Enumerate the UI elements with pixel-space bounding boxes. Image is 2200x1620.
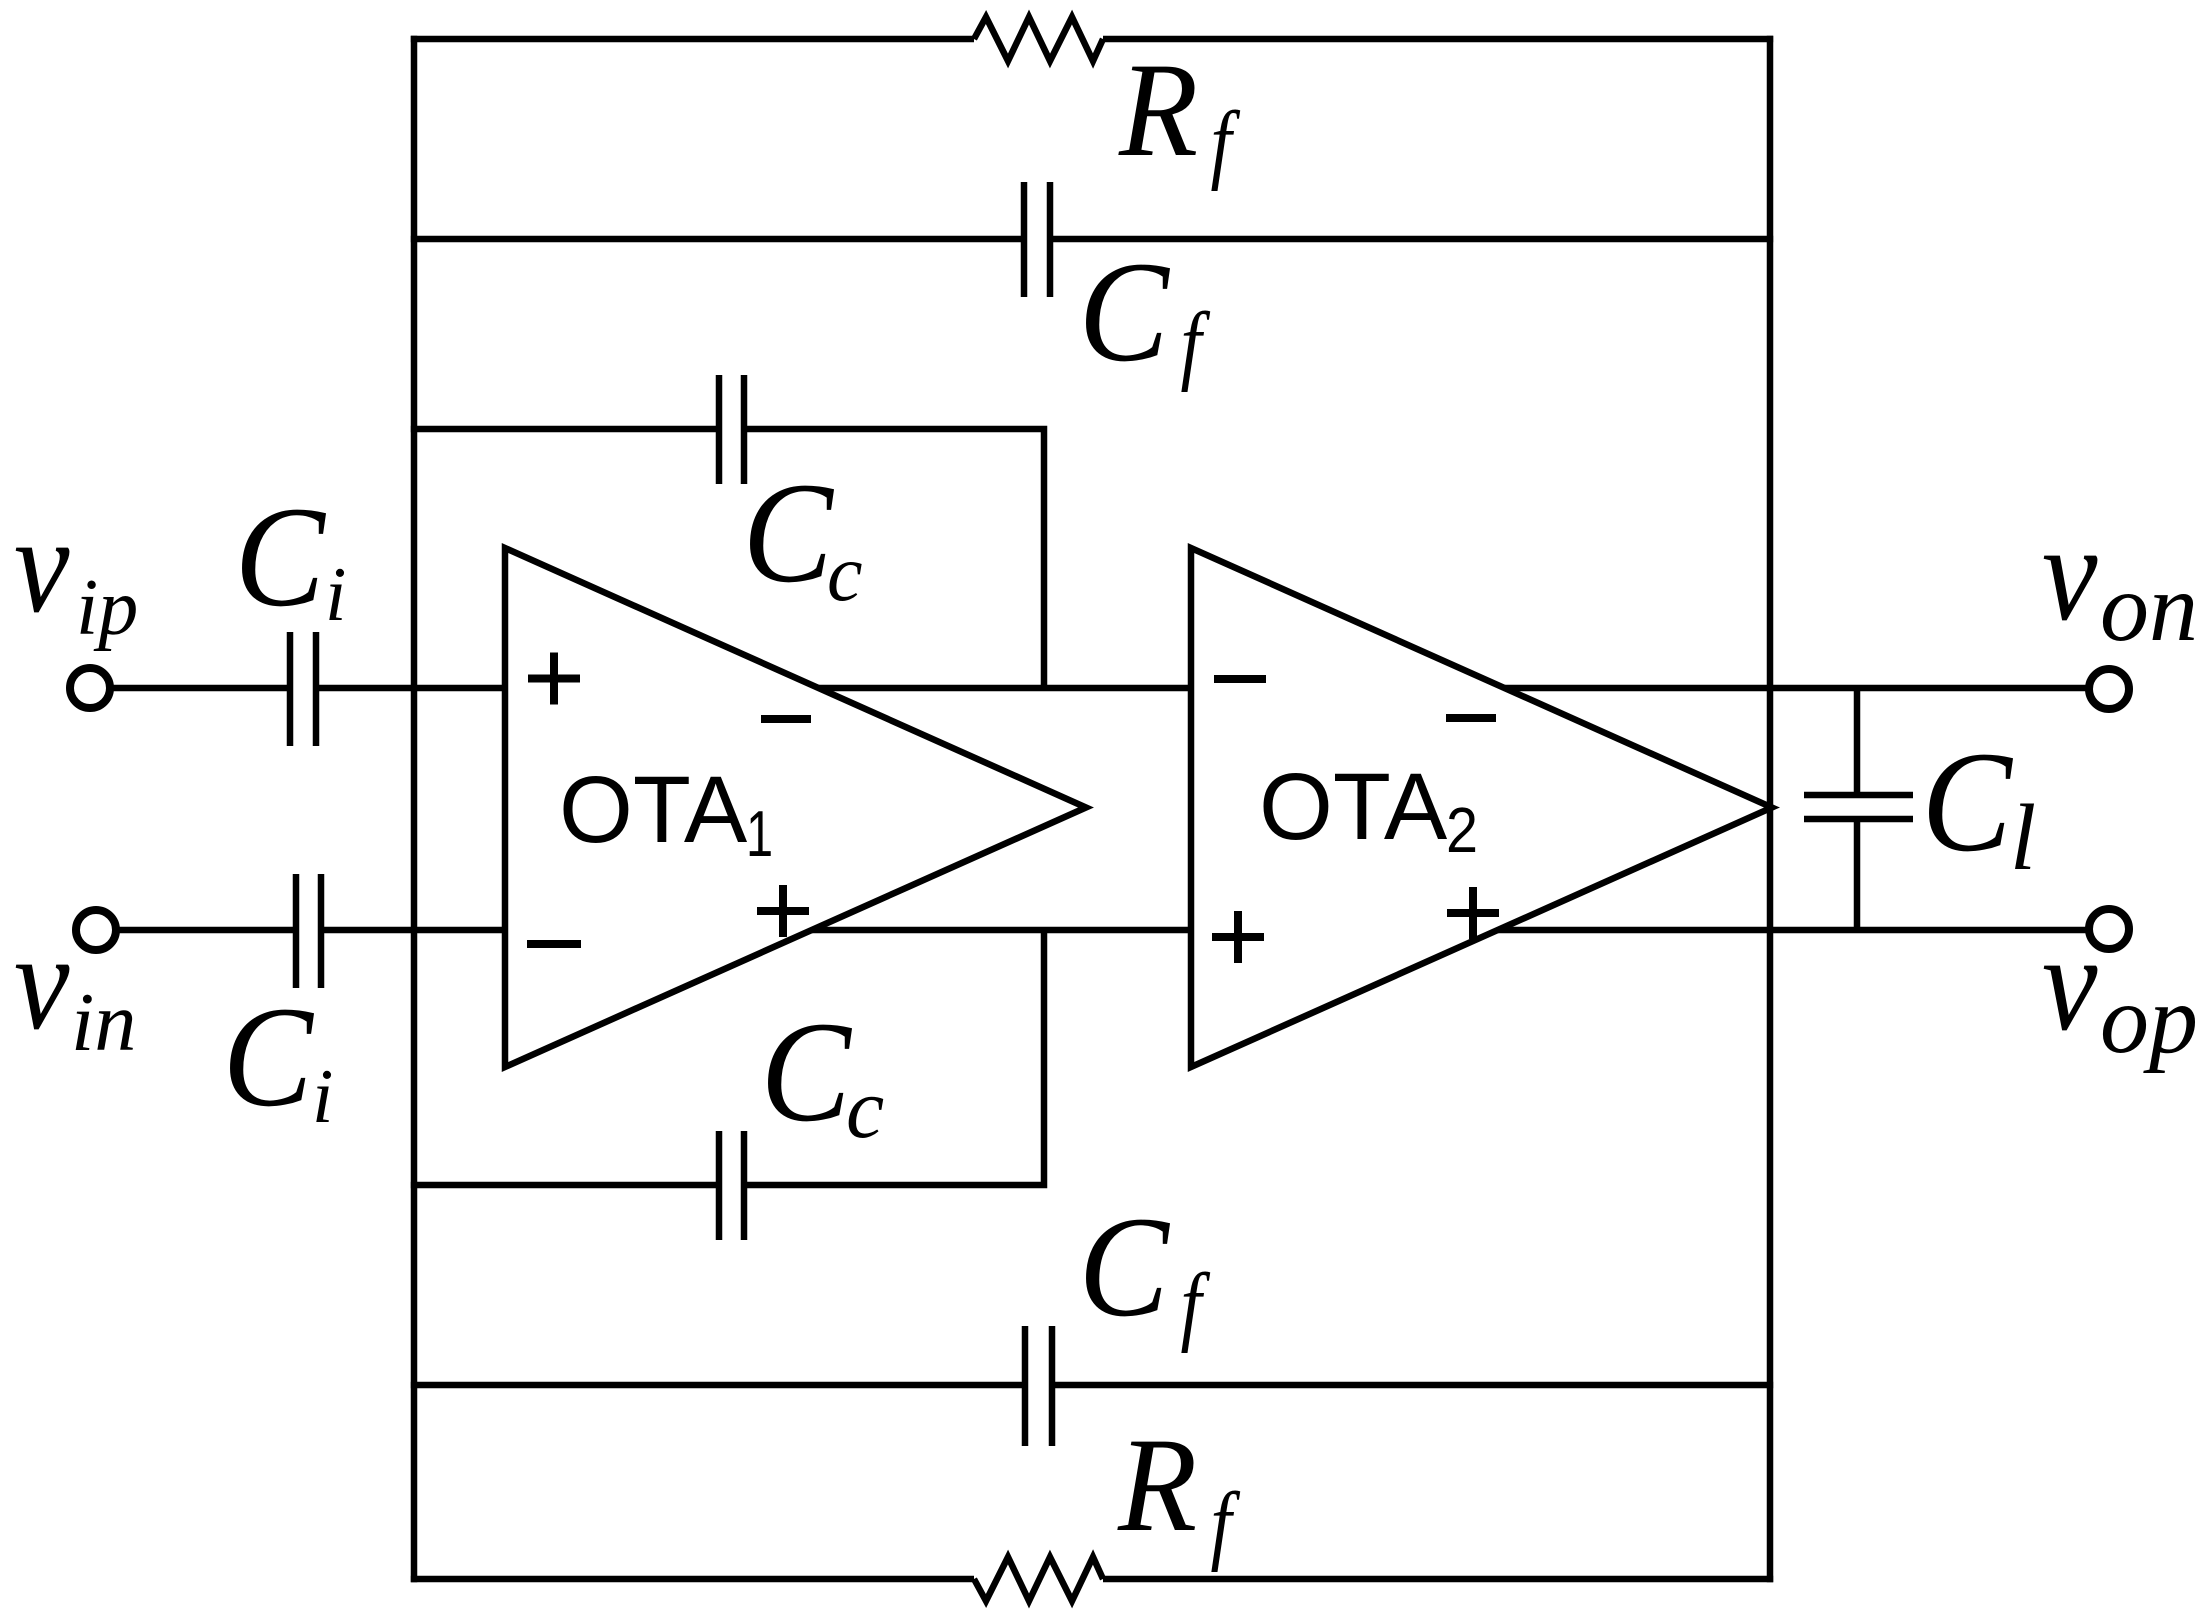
wire top signal line from Ci through node A to OTA1 and on to von: [316, 685, 2090, 692]
terminal vin: [76, 910, 116, 950]
capacitor Ci (bottom) plates: [296, 874, 321, 988]
wire from vip terminal to Ci top: [109, 685, 290, 692]
label OTA1: [559, 757, 773, 871]
wire from vin terminal to Ci bottom: [115, 927, 296, 934]
wire top Cf rail left segment: [411, 236, 1024, 243]
OTA2 noninverting input pin +: [1212, 911, 1264, 963]
capacitor Cl stem bottom: [1854, 819, 1861, 930]
svg-text:v: v: [2042, 497, 2098, 649]
OTA2 noninverting output pin +: [1447, 887, 1499, 939]
svg-text:1: 1: [746, 798, 773, 870]
label vop: [2042, 907, 2198, 1074]
svg-text:R: R: [1117, 1410, 1197, 1560]
wire bottom Cc rail left segment: [411, 1182, 719, 1189]
label Rf (top): [1118, 35, 1241, 192]
wire top Cf rail right segment: [1050, 236, 1773, 243]
label Cf (bottom): [1079, 1187, 1211, 1353]
svg-text:C: C: [761, 992, 853, 1152]
label Cf (top): [1079, 232, 1211, 392]
svg-text:C: C: [1079, 1187, 1171, 1347]
svg-text:2: 2: [1446, 794, 1478, 865]
svg-text:R: R: [1118, 35, 1198, 185]
wire bottom Rf rail left segment: [411, 1576, 974, 1583]
svg-text:OTA: OTA: [559, 757, 748, 863]
svg-text:c: c: [827, 530, 863, 618]
capacitor Ci (top) plates: [290, 632, 316, 746]
wire bottom Cf rail left segment: [411, 1382, 1025, 1389]
OTA2 inverting input pin -: [1214, 675, 1266, 683]
label OTA2: [1259, 754, 1478, 866]
OTA1 inverting output pin -: [761, 715, 811, 723]
wire top Cc rail right segment with corner down to OTA1 minus output node: [744, 429, 1044, 688]
resistor Rf (bottom): [974, 1557, 1103, 1601]
terminal von: [2089, 669, 2129, 709]
svg-text:l: l: [2010, 786, 2036, 890]
OTA1 noninverting output pin +: [757, 885, 809, 937]
label von: [2042, 497, 2198, 662]
label Cc (bottom): [761, 992, 885, 1156]
label vin: [14, 906, 136, 1069]
svg-text:in: in: [71, 976, 136, 1069]
capacitor Cf (bottom) plates: [1025, 1326, 1052, 1446]
svg-text:C: C: [1079, 232, 1171, 392]
svg-text:op: op: [2100, 966, 2198, 1074]
terminal vop: [2089, 909, 2129, 949]
label Ci (bottom): [223, 977, 334, 1139]
capacitor Cc (bottom) plates: [719, 1131, 744, 1240]
svg-text:C: C: [743, 453, 835, 613]
wire top Rf feedback rail right segment: [1103, 36, 1773, 43]
wire bottom signal line from Ci through node B to OTA1 and on to vop: [321, 927, 2090, 934]
svg-text:i: i: [312, 1053, 333, 1139]
wire top Rf feedback rail left segment: [411, 36, 974, 43]
svg-text:v: v: [2042, 907, 2098, 1059]
capacitor Cc (top) plates: [719, 375, 744, 484]
wire right feedback bus (output vertical): [1767, 36, 1774, 1582]
OTA2 inverting output pin -: [1446, 714, 1496, 722]
svg-text:v: v: [14, 906, 70, 1058]
svg-text:C: C: [1922, 722, 2014, 882]
label Cl: [1922, 722, 2037, 890]
wire bottom Rf rail right segment: [1103, 1576, 1773, 1583]
label Rf (bottom): [1117, 1410, 1241, 1573]
wire top Cc rail left segment: [411, 426, 719, 433]
op-amp OTA2 body: [1191, 548, 1772, 1067]
svg-text:OTA: OTA: [1259, 754, 1448, 860]
terminal vip: [70, 668, 110, 708]
wire bottom Cf rail right segment: [1052, 1382, 1773, 1389]
OTA1 inverting input pin -: [527, 940, 581, 948]
wire left feedback bus (node A vertical): [411, 36, 418, 1582]
OTA1 noninverting input pin +: [528, 653, 580, 705]
svg-text:v: v: [14, 489, 70, 641]
op-amp OTA1 body: [505, 548, 1086, 1067]
svg-text:C: C: [235, 477, 327, 637]
capacitor Cf (top) plates: [1024, 182, 1050, 297]
svg-text:on: on: [2100, 554, 2198, 662]
label vip: [14, 489, 138, 652]
label Ci (top): [235, 477, 347, 637]
svg-text:C: C: [223, 977, 315, 1137]
svg-text:c: c: [846, 1060, 884, 1156]
capacitor Cl stem top: [1854, 688, 1861, 795]
capacitor Cl plates: [1804, 795, 1913, 819]
wire bottom Cc rail right segment with corner up to OTA1 plus output node: [744, 930, 1044, 1185]
svg-text:ip: ip: [76, 564, 138, 652]
label Cc (top): [743, 453, 863, 618]
svg-text:i: i: [325, 551, 346, 637]
resistor Rf (top): [974, 17, 1103, 61]
